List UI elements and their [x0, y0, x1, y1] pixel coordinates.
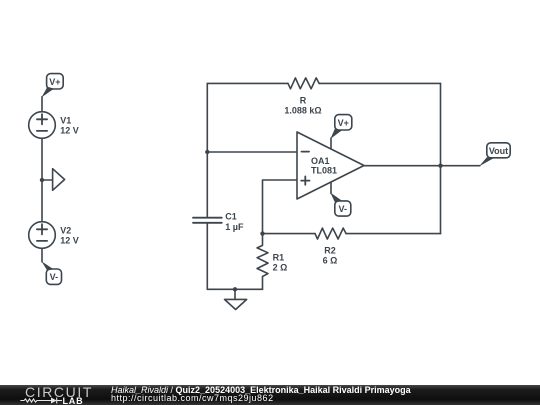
node junction (inverting input node)	[205, 150, 209, 154]
svg-text:V+: V+	[49, 77, 60, 87]
flag V- (op-amp negative supply)	[330, 183, 351, 217]
wire (inverting input)	[207, 151, 297, 153]
footer bar	[0, 385, 540, 405]
flag V+ (op-amp positive supply)	[330, 115, 352, 149]
CircuitLab logo	[15, 385, 115, 405]
terminal triangle (common)	[42, 169, 65, 191]
wire (left rail lower)	[206, 223, 208, 289]
wire (output)	[364, 165, 480, 167]
wire (top rail right)	[319, 82, 440, 84]
svg-text:V+: V+	[338, 118, 349, 128]
node junction (ground tap)	[233, 287, 237, 291]
svg-text:12 V: 12 V	[60, 125, 79, 135]
svg-text:V1: V1	[60, 115, 71, 125]
node junction (output node)	[438, 164, 442, 168]
svg-text:TL081: TL081	[311, 166, 337, 176]
resistor R	[288, 78, 319, 89]
voltage source V2	[29, 222, 56, 249]
svg-text:6 Ω: 6 Ω	[323, 256, 338, 266]
ground	[225, 289, 247, 309]
svg-text:2 Ω: 2 Ω	[273, 263, 288, 273]
footer title text	[111, 386, 411, 395]
flag Vout	[479, 143, 510, 167]
svg-text:R1: R1	[273, 253, 285, 263]
svg-text:12 V: 12 V	[60, 235, 79, 245]
wire (left rail)	[206, 83, 208, 217]
wire	[41, 180, 43, 222]
wire (R2 left lead)	[263, 233, 316, 235]
flag V- (left supply)	[42, 261, 62, 284]
capacitor C1	[193, 218, 222, 223]
wire (R2 right lead)	[346, 233, 440, 235]
wire	[41, 248, 43, 261]
wire (right rail)	[440, 83, 442, 233]
wire (bottom rail)	[207, 288, 262, 290]
voltage source V1	[29, 112, 56, 139]
footer url text	[111, 394, 274, 403]
node junction (R1/R2 node)	[260, 231, 264, 235]
svg-text:V-: V-	[339, 204, 348, 214]
svg-text:Vout: Vout	[489, 146, 508, 156]
svg-text:V-: V-	[50, 272, 59, 282]
svg-text:C1: C1	[225, 212, 237, 222]
svg-text:OA1: OA1	[311, 156, 330, 166]
op-amp OA1	[297, 132, 364, 199]
wire (non-inverting input)	[263, 180, 298, 234]
svg-text:LAB: LAB	[63, 396, 84, 405]
wire	[41, 138, 43, 180]
resistor R2	[315, 228, 346, 239]
wire (top rail left)	[207, 82, 288, 84]
node junction (supply midpoint)	[40, 178, 44, 182]
svg-text:1 µF: 1 µF	[225, 222, 244, 232]
svg-text:1.088 kΩ: 1.088 kΩ	[284, 106, 321, 116]
resistor R1	[257, 234, 268, 290]
svg-text:R2: R2	[324, 246, 336, 256]
svg-text:V2: V2	[60, 225, 71, 235]
svg-text:R: R	[300, 96, 307, 106]
wire	[41, 97, 43, 112]
flag V+ (left supply)	[41, 74, 63, 98]
